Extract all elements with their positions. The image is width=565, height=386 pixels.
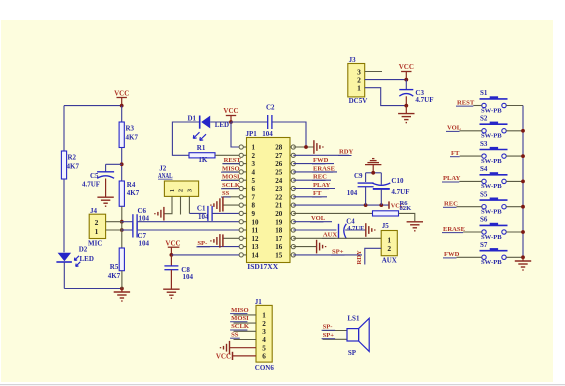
- pin 24 (right): [291, 178, 295, 182]
- node pin14 VCC junction: [170, 253, 174, 257]
- resistor R1 1K: [189, 153, 215, 158]
- wire S5 to rail: [506, 206, 523, 208]
- svg-text:ERASE: ERASE: [443, 226, 466, 233]
- svg-text:LS1: LS1: [347, 315, 360, 323]
- svg-text:4K7: 4K7: [67, 163, 80, 171]
- svg-text:1: 1: [95, 227, 99, 236]
- svg-text:DC5V: DC5V: [349, 97, 368, 105]
- svg-text:14: 14: [252, 252, 260, 260]
- svg-text:VCC: VCC: [165, 239, 180, 247]
- pin 18 (right): [291, 228, 295, 232]
- wire pin8 stub: [223, 204, 239, 206]
- svg-text:REC: REC: [444, 201, 458, 208]
- svg-text:S1: S1: [480, 89, 488, 97]
- svg-text:4.7UF: 4.7UF: [415, 96, 433, 104]
- svg-text:VOL: VOL: [447, 125, 462, 132]
- wire S3 to rail: [506, 155, 523, 157]
- wire R3 to R4: [121, 148, 123, 182]
- svg-text:4: 4: [262, 336, 266, 344]
- ground left of J2: [163, 207, 165, 221]
- wire R1 to IC pin 2: [215, 154, 239, 156]
- ground below C8: [170, 270, 172, 289]
- ground above C9 C10 (inverted): [365, 164, 381, 166]
- wire R6 to ground: [399, 213, 415, 221]
- wire C6 to IC pin 10: [137, 221, 239, 223]
- capacitor C6 104: [122, 221, 133, 223]
- wire C9 C10 top rail: [366, 172, 382, 174]
- svg-text:16: 16: [275, 243, 283, 251]
- node rail junction: [521, 129, 525, 133]
- svg-text:10: 10: [252, 218, 260, 226]
- svg-text:R4: R4: [127, 181, 136, 189]
- net SCLK (J1 pin3): [234, 330, 257, 332]
- svg-text:104: 104: [262, 130, 273, 138]
- svg-text:26: 26: [275, 160, 283, 168]
- svg-text:S3: S3: [480, 140, 488, 148]
- net MISO (J1 pin1): [234, 314, 257, 316]
- svg-text:9: 9: [252, 210, 256, 218]
- node VCC-LED junction: [229, 120, 233, 124]
- wire J3 pin1 to ground rail: [365, 88, 407, 106]
- net REST stub (pin3): [222, 163, 239, 165]
- svg-text:SW-PB: SW-PB: [481, 209, 502, 216]
- svg-text:PLAY: PLAY: [313, 182, 331, 189]
- power VCC J1 pin6: [232, 352, 234, 360]
- svg-text:VCC: VCC: [399, 63, 414, 71]
- wire VCC junction to C2: [231, 121, 268, 123]
- svg-text:SW-PB: SW-PB: [481, 107, 502, 114]
- wire pin12 stub: [223, 237, 239, 239]
- pin 3 (left): [239, 162, 243, 166]
- svg-text:13: 13: [252, 243, 260, 251]
- svg-text:4.7UF: 4.7UF: [82, 181, 100, 189]
- svg-text:J3: J3: [349, 56, 357, 64]
- pin 1 (left): [239, 145, 243, 149]
- ground right of pin16: [316, 240, 318, 254]
- svg-text:11: 11: [252, 227, 259, 235]
- svg-text:1: 1: [357, 84, 361, 93]
- node pin28 junction: [304, 145, 308, 149]
- svg-text:15: 15: [275, 252, 283, 260]
- svg-text:S5: S5: [480, 190, 488, 198]
- connector J5 AUX: [381, 231, 397, 256]
- pin 27 (right): [291, 153, 295, 157]
- wire J4 pin1: [106, 229, 122, 231]
- ground pins 12-13: [222, 234, 224, 246]
- resistor R2: [61, 151, 66, 179]
- node C9 bottom: [364, 203, 368, 207]
- net SP- (speaker): [323, 330, 347, 332]
- wire pin 21 to VCC: [293, 204, 389, 206]
- net MOSI stub (pin5): [222, 179, 239, 181]
- node bottom junction: [120, 287, 124, 291]
- net RDY (pin27): [293, 154, 349, 156]
- svg-text:FWD: FWD: [313, 157, 329, 164]
- resistor R5: [119, 248, 124, 271]
- pin 10 (left): [239, 220, 243, 224]
- pin 13 (left): [239, 245, 243, 249]
- wire J2 pin1 to ground: [164, 196, 172, 213]
- node C10 bottom: [379, 203, 383, 207]
- svg-text:6: 6: [252, 185, 256, 193]
- capacitor C9 104: [365, 173, 367, 182]
- svg-text:4K7: 4K7: [108, 272, 121, 280]
- node rail junction: [521, 205, 525, 209]
- ground J1 pin5: [230, 347, 257, 349]
- wire S7 to rail: [506, 256, 523, 258]
- wire C10 bottom: [380, 189, 382, 205]
- wire S1 to rail: [506, 105, 523, 107]
- wire C2 to pin28 riser: [272, 122, 306, 147]
- node C5 tap: [120, 162, 124, 166]
- svg-text:104: 104: [198, 213, 209, 221]
- resistor R4: [119, 181, 124, 206]
- svg-text:CON6: CON6: [255, 364, 275, 372]
- svg-text:SCLK: SCLK: [222, 182, 241, 189]
- wire R1 left riser: [172, 122, 199, 155]
- wire S2 to rail: [506, 130, 523, 132]
- svg-text:1: 1: [169, 189, 176, 192]
- ground below C5: [105, 179, 107, 197]
- svg-text:AUX: AUX: [323, 232, 338, 239]
- wire pin 20 to R6: [293, 212, 372, 214]
- svg-text:C2: C2: [266, 104, 275, 112]
- net MOSI (J1 pin2): [234, 322, 257, 324]
- svg-text:MISO: MISO: [222, 165, 240, 172]
- svg-text:5: 5: [252, 177, 256, 185]
- pin 21 (right): [291, 203, 295, 207]
- wire J3 pin3 stub: [365, 71, 382, 73]
- pin 14 (left): [239, 253, 243, 257]
- svg-text:4K7: 4K7: [126, 134, 139, 142]
- svg-text:REC: REC: [313, 174, 327, 181]
- svg-text:R2: R2: [68, 154, 77, 162]
- capacitor C5 4.7UF: [97, 171, 114, 173]
- svg-text:22: 22: [275, 193, 283, 201]
- wire switch common rail: [522, 106, 524, 258]
- svg-text:104: 104: [347, 189, 358, 197]
- wire J5 pin2 RDY: [365, 248, 381, 264]
- svg-text:FT: FT: [451, 150, 460, 157]
- net FT (switch S3): [460, 155, 482, 157]
- net ERASE (pin25): [293, 171, 337, 173]
- node junction VCC left: [120, 104, 124, 108]
- svg-text:R5: R5: [110, 263, 119, 271]
- pin 9 (left): [239, 211, 243, 215]
- svg-text:FWD: FWD: [444, 251, 460, 258]
- svg-text:FT: FT: [313, 190, 322, 197]
- wire S4 to rail: [506, 180, 523, 182]
- svg-text:82K: 82K: [400, 205, 413, 212]
- pin 26 (right): [291, 162, 295, 166]
- pin 20 (right): [291, 211, 295, 215]
- svg-text:17: 17: [275, 235, 283, 243]
- svg-text:MIC: MIC: [88, 240, 102, 248]
- node C9C10 gnd junction: [371, 171, 375, 175]
- svg-text:4.7UF: 4.7UF: [347, 225, 364, 232]
- svg-text:104: 104: [139, 240, 150, 248]
- svg-text:104: 104: [183, 273, 194, 281]
- svg-text:3: 3: [262, 328, 266, 336]
- wire pin 16 to ground: [293, 246, 316, 248]
- svg-text:6: 6: [262, 353, 266, 361]
- svg-text:SW-PB: SW-PB: [481, 259, 502, 266]
- net SP+ (pin15): [293, 254, 362, 256]
- svg-text:S7: S7: [480, 241, 488, 249]
- net SS (J1 pin4): [234, 339, 257, 341]
- wire R4 to J4 node: [121, 206, 123, 221]
- svg-text:12: 12: [252, 235, 260, 243]
- svg-text:SCLK: SCLK: [231, 323, 250, 330]
- wire J3 pin2 to VCC: [365, 79, 407, 81]
- pin 5 (left): [239, 178, 243, 182]
- net REC (switch S5): [456, 206, 481, 208]
- pin 12 (left): [239, 236, 243, 240]
- svg-text:8: 8: [252, 202, 256, 210]
- ground below C3: [405, 106, 407, 114]
- svg-text:RDY: RDY: [339, 149, 354, 156]
- resistor R3: [119, 122, 124, 148]
- pin 28 (right): [291, 145, 295, 149]
- pin 23 (right): [291, 186, 295, 190]
- wire R2 to D2: [63, 179, 65, 252]
- pin 7 (left): [239, 195, 243, 199]
- svg-text:J1: J1: [255, 298, 262, 306]
- svg-text:VCC: VCC: [223, 107, 238, 115]
- svg-text:D1: D1: [188, 115, 197, 123]
- svg-text:AUX: AUX: [382, 257, 397, 265]
- wire bottom horizontal: [64, 288, 122, 290]
- svg-text:MOSI: MOSI: [222, 174, 240, 181]
- ground right of C4: [365, 223, 367, 237]
- speaker LS1: [347, 329, 359, 341]
- node J4 pin2 junction: [120, 220, 124, 224]
- svg-text:4: 4: [252, 169, 256, 177]
- svg-text:ISD17XX: ISD17XX: [247, 262, 278, 271]
- svg-text:MOSI: MOSI: [231, 315, 249, 322]
- node rail junction: [521, 180, 525, 184]
- svg-text:PLAY: PLAY: [443, 175, 461, 182]
- svg-text:25: 25: [275, 169, 283, 177]
- wire left branch down to R2: [63, 106, 65, 151]
- svg-text:REST: REST: [457, 99, 475, 106]
- svg-text:S6: S6: [480, 216, 488, 224]
- svg-text:2: 2: [262, 320, 266, 328]
- svg-text:1: 1: [262, 312, 266, 320]
- svg-text:SS: SS: [222, 190, 230, 197]
- capacitor C3 4.7UF: [405, 80, 407, 90]
- wire pin 14: [171, 254, 239, 256]
- svg-text:SP+: SP+: [332, 248, 344, 255]
- wire J2 pin2 stub: [180, 196, 182, 214]
- wire pin 28 to ground: [293, 146, 314, 148]
- svg-text:R1: R1: [197, 144, 206, 152]
- wire J2 pin3 down: [188, 196, 190, 213]
- svg-text:19: 19: [275, 218, 283, 226]
- svg-text:21: 21: [275, 202, 283, 210]
- pin 19 (right): [291, 220, 295, 224]
- pin 17 (right): [291, 236, 295, 240]
- wire VCC to left branch: [64, 105, 122, 107]
- svg-text:SP-: SP-: [197, 240, 207, 247]
- svg-text:28: 28: [275, 144, 283, 152]
- capacitor C4 4.7UF: [338, 224, 340, 239]
- svg-text:5: 5: [262, 344, 266, 352]
- pin 11 (left): [239, 228, 243, 232]
- svg-text:2: 2: [95, 218, 99, 227]
- capacitor C1 104: [207, 206, 209, 221]
- wire mic node vertical: [121, 222, 123, 248]
- wire D2 to bottom corner: [63, 262, 65, 289]
- svg-text:3: 3: [252, 160, 256, 168]
- svg-text:VCC: VCC: [216, 353, 231, 361]
- net FWD (switch S7): [456, 256, 481, 258]
- capacitor C8 104: [170, 255, 172, 266]
- svg-text:SS: SS: [231, 331, 239, 338]
- pin 8 (left): [239, 203, 243, 207]
- pin 4 (left): [239, 170, 243, 174]
- connector J3 DC5V: [348, 64, 365, 97]
- svg-text:SW-PB: SW-PB: [481, 133, 502, 140]
- svg-text:18: 18: [275, 227, 283, 235]
- svg-text:C10: C10: [391, 177, 404, 185]
- svg-text:104: 104: [139, 214, 150, 222]
- svg-text:VCC: VCC: [114, 90, 129, 98]
- svg-text:JP1: JP1: [246, 130, 258, 138]
- pin 15 (right): [291, 253, 295, 257]
- svg-text:VOL: VOL: [311, 215, 326, 222]
- node C3 top: [404, 78, 408, 82]
- ground bottom left: [121, 289, 123, 292]
- wire C9 bottom: [365, 187, 367, 205]
- pin 16 (right): [291, 245, 295, 249]
- node rail junction: [521, 154, 525, 158]
- net SS stub (pin7): [223, 196, 239, 198]
- wire C7 to IC pin 11: [137, 229, 239, 231]
- wire S6 to rail: [506, 231, 523, 233]
- net VOL (switch S2): [459, 130, 481, 132]
- svg-text:J5: J5: [382, 222, 390, 230]
- svg-text:C1: C1: [197, 205, 206, 213]
- svg-text:S4: S4: [480, 165, 488, 173]
- net FWD (pin26): [293, 163, 334, 165]
- svg-text:SP+: SP+: [323, 332, 335, 339]
- svg-text:S2: S2: [480, 115, 488, 123]
- net PLAY (switch S4): [459, 180, 481, 182]
- svg-text:C9: C9: [354, 172, 363, 180]
- svg-text:7: 7: [252, 193, 256, 201]
- svg-text:ERASE: ERASE: [313, 165, 336, 172]
- svg-text:1K: 1K: [198, 156, 208, 164]
- net REST (switch S1): [473, 105, 481, 107]
- svg-text:SW-PB: SW-PB: [481, 158, 502, 165]
- svg-text:1: 1: [252, 144, 256, 152]
- svg-text:ANAL: ANAL: [158, 172, 173, 180]
- LED D1: [199, 116, 201, 129]
- svg-text:RDY: RDY: [356, 250, 363, 265]
- pin 22 (right): [291, 195, 295, 199]
- svg-text:J4: J4: [90, 207, 98, 215]
- node J4 pin1 junction: [120, 228, 124, 232]
- net SCLK stub (pin6): [222, 188, 239, 190]
- net REC (pin24): [293, 179, 331, 181]
- svg-text:SP: SP: [348, 349, 357, 357]
- capacitor C10 4.7UF: [380, 173, 382, 185]
- ground pins 7-8: [222, 197, 224, 212]
- net VOL (pin19): [293, 221, 332, 223]
- capacitor C7 104: [122, 229, 133, 231]
- svg-text:SW-PB: SW-PB: [481, 234, 502, 241]
- svg-text:SP-: SP-: [323, 324, 333, 331]
- ground right of pin28: [313, 140, 315, 154]
- wire C4 to ground: [345, 229, 366, 231]
- connector J4 MIC: [89, 214, 105, 238]
- svg-text:23: 23: [275, 185, 283, 193]
- net FT (pin22): [293, 196, 327, 198]
- wire pin13 SP- wire: [197, 246, 239, 248]
- wire R3 top lead: [121, 106, 123, 122]
- svg-text:4K7: 4K7: [127, 189, 140, 197]
- wire J2 pin3 to C1: [189, 212, 206, 214]
- svg-text:4.7UF: 4.7UF: [391, 188, 409, 196]
- svg-text:D2: D2: [79, 246, 88, 254]
- net PLAY (pin23): [293, 188, 335, 190]
- svg-text:24: 24: [275, 177, 283, 185]
- wire pin 17 to J5 pin1: [293, 237, 381, 239]
- svg-text:20: 20: [275, 210, 283, 218]
- svg-text:2: 2: [252, 152, 256, 160]
- pin 6 (left): [239, 186, 243, 190]
- wire C5 tap: [106, 163, 122, 165]
- svg-text:2: 2: [387, 244, 391, 253]
- wire R5 to ground node: [121, 271, 123, 289]
- wire J4 pin2: [106, 221, 122, 223]
- pin 2 (left): [239, 153, 243, 157]
- pin 25 (right): [291, 170, 295, 174]
- node rail junction: [521, 255, 525, 259]
- svg-text:LED: LED: [80, 255, 94, 263]
- capacitor C2 104: [267, 115, 269, 129]
- connector J2 ANAL: [164, 181, 198, 196]
- node C3 bottom: [404, 104, 408, 108]
- svg-text:2: 2: [178, 189, 185, 192]
- connector J1 CON6: [256, 305, 272, 362]
- svg-text:27: 27: [275, 152, 283, 160]
- ground switch rail: [522, 257, 524, 260]
- wire D1 to VCC junction: [210, 121, 231, 123]
- LED D2: [58, 253, 72, 262]
- net MISO stub (pin4): [222, 171, 239, 173]
- net ERASE (switch S6): [463, 231, 482, 233]
- svg-text:SW-PB: SW-PB: [481, 183, 502, 190]
- power VCC at pin21: [388, 201, 390, 208]
- wire VCC junction down to pin 1: [231, 122, 239, 147]
- net AUX wire (pin18): [293, 229, 336, 231]
- svg-text:MISO: MISO: [231, 307, 249, 314]
- svg-text:R3: R3: [126, 125, 135, 133]
- node rail junction: [521, 230, 525, 234]
- svg-text:REST: REST: [224, 157, 242, 164]
- svg-text:C5: C5: [90, 172, 99, 180]
- ground right of R6: [407, 221, 423, 223]
- net SP+ (speaker): [323, 338, 347, 340]
- IC JP1 ISD17XX body: [247, 138, 291, 263]
- resistor R6 82K: [373, 211, 399, 216]
- wire C1 to IC pin 9: [212, 212, 239, 214]
